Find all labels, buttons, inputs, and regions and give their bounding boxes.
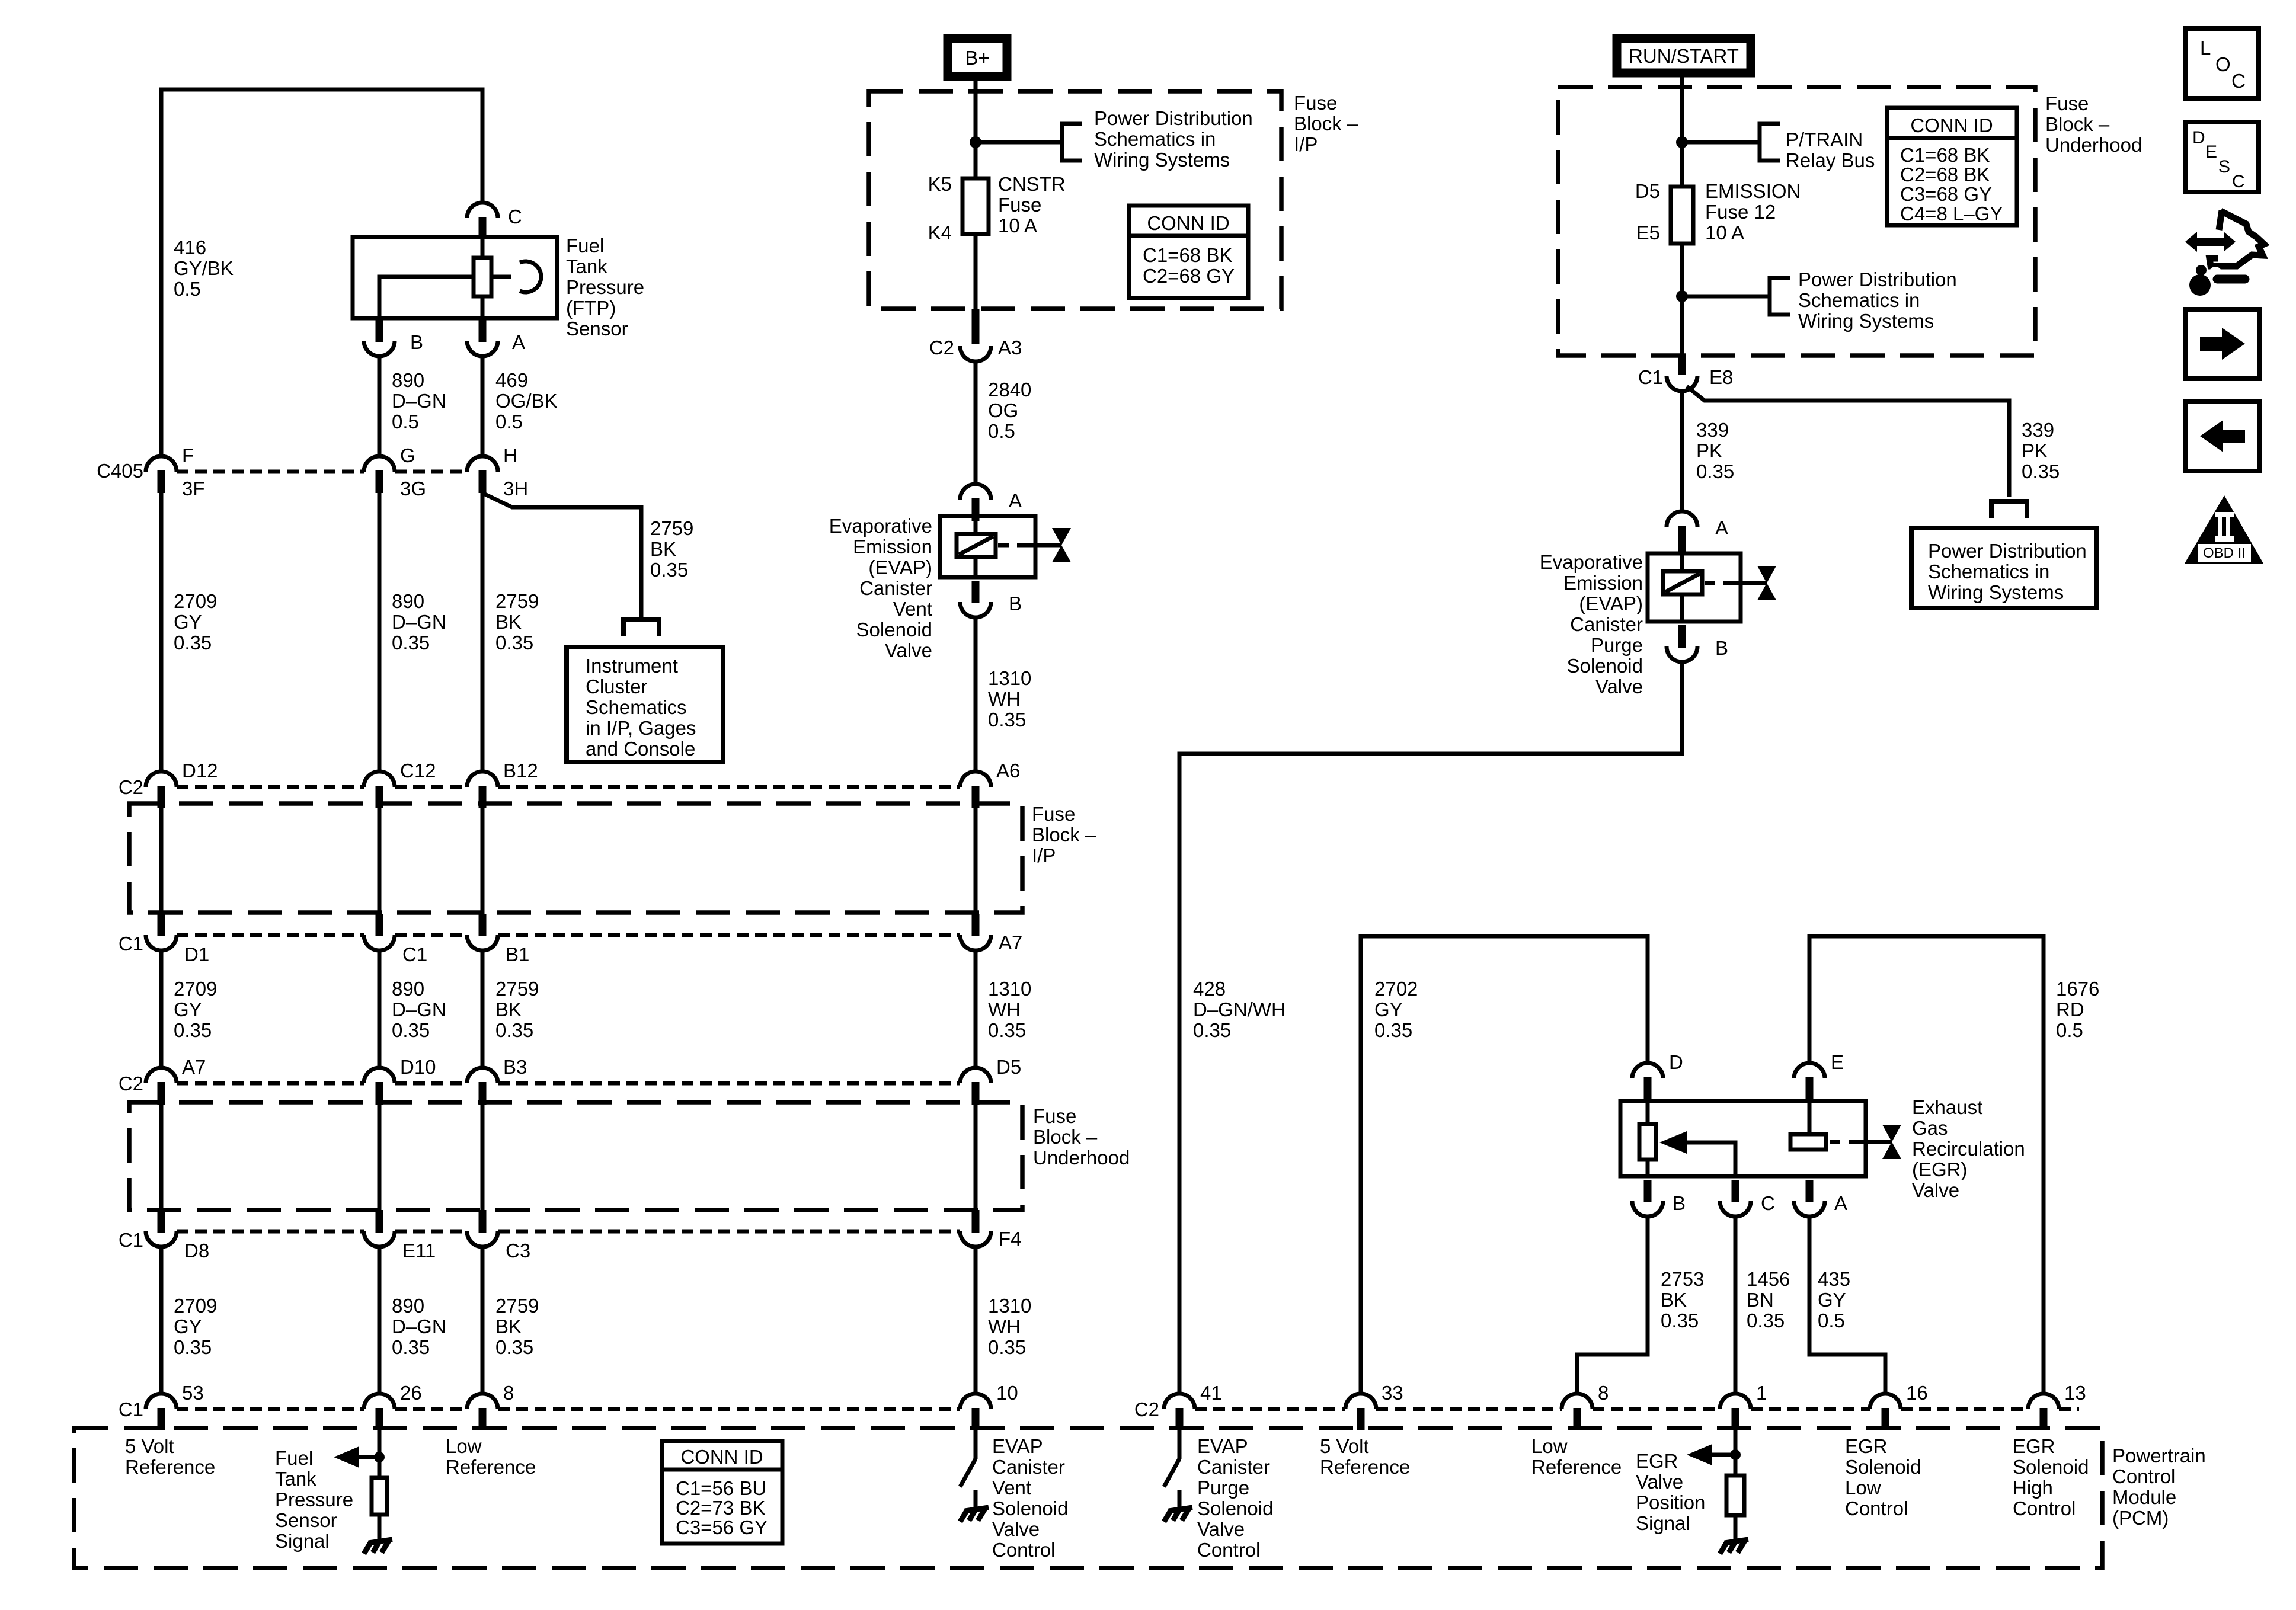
svg-text:E5: E5 bbox=[1636, 222, 1660, 244]
svg-text:B1: B1 bbox=[506, 943, 529, 965]
svg-text:Valve: Valve bbox=[1636, 1471, 1683, 1493]
connector C (FTP sensor) bbox=[467, 203, 498, 239]
svg-text:P/TRAIN: P/TRAIN bbox=[1786, 129, 1863, 151]
svg-text:C1: C1 bbox=[119, 1398, 143, 1420]
svg-text:5 Volt: 5 Volt bbox=[1320, 1435, 1369, 1457]
connector C1 bbox=[364, 914, 395, 950]
svg-text:0.35: 0.35 bbox=[495, 1336, 533, 1358]
wire B+ down into fuse block bbox=[974, 81, 978, 178]
svg-text:G: G bbox=[400, 444, 415, 466]
svg-text:0.35: 0.35 bbox=[1193, 1019, 1231, 1041]
svg-text:C1: C1 bbox=[119, 1229, 143, 1251]
svg-text:Valve: Valve bbox=[1912, 1179, 1959, 1201]
EGR wiper arrow bbox=[1686, 1142, 1735, 1176]
wire pin 13 loop to EGR E bbox=[1809, 936, 2044, 1394]
svg-text:2840: 2840 bbox=[988, 379, 1031, 401]
wires C1 row to C2 row bbox=[159, 950, 164, 1068]
connector F4 bbox=[960, 1210, 991, 1247]
connector D (EGR) bbox=[1632, 1063, 1663, 1100]
svg-text:Cluster: Cluster bbox=[586, 676, 648, 697]
svg-text:C: C bbox=[2232, 172, 2245, 191]
off-page bracket P/TRAIN relay bus bbox=[1760, 124, 1780, 161]
svg-text:B: B bbox=[410, 331, 423, 353]
svg-text:GY: GY bbox=[174, 998, 202, 1020]
svg-text:Valve: Valve bbox=[885, 639, 932, 661]
svg-text:GY: GY bbox=[1374, 998, 1403, 1020]
svg-text:Valve: Valve bbox=[1197, 1518, 1245, 1540]
svg-text:GY: GY bbox=[174, 611, 202, 633]
svg-text:8: 8 bbox=[503, 1382, 514, 1404]
pin 10 internal: EVAP vent control switch bbox=[974, 1428, 978, 1459]
svg-text:Vent: Vent bbox=[893, 598, 932, 620]
svg-text:D1: D1 bbox=[184, 943, 209, 965]
svg-text:High: High bbox=[2013, 1477, 2053, 1499]
svg-text:Block –: Block – bbox=[1032, 824, 1096, 846]
svg-text:Recirculation: Recirculation bbox=[1912, 1138, 2025, 1160]
svg-text:Module: Module bbox=[2112, 1486, 2176, 1508]
svg-text:EVAP: EVAP bbox=[992, 1435, 1043, 1457]
svg-text:I/P: I/P bbox=[1032, 844, 1056, 866]
svg-text:Canister: Canister bbox=[992, 1456, 1065, 1478]
purge valve linkage dashes bbox=[1705, 581, 1715, 585]
svg-text:Powertrain: Powertrain bbox=[2112, 1445, 2206, 1467]
svg-text:Control: Control bbox=[1197, 1539, 1260, 1561]
fuse block I/P dashed box (middle) bbox=[129, 804, 1022, 913]
svg-text:Instrument: Instrument bbox=[586, 655, 678, 677]
svg-text:Canister: Canister bbox=[859, 577, 932, 599]
svg-text:Fuse: Fuse bbox=[1033, 1105, 1076, 1127]
svg-text:890: 890 bbox=[392, 1295, 424, 1317]
svg-text:C1=68 BK: C1=68 BK bbox=[1900, 144, 1990, 166]
connector B (vent valve) bbox=[960, 581, 991, 617]
LOC icon box bbox=[2185, 28, 2259, 98]
svg-text:0.35: 0.35 bbox=[1374, 1019, 1412, 1041]
fuse block underhood dashed box (middle) bbox=[129, 1102, 1022, 1210]
svg-text:2702: 2702 bbox=[1374, 978, 1418, 1000]
connector A (FTP) bbox=[467, 319, 498, 356]
connector E11 bbox=[364, 1210, 395, 1247]
svg-text:2753: 2753 bbox=[1661, 1268, 1704, 1290]
svg-text:D–GN/WH: D–GN/WH bbox=[1193, 998, 1285, 1020]
svg-text:C3: C3 bbox=[506, 1240, 530, 1262]
svg-text:D–GN: D–GN bbox=[392, 998, 446, 1020]
svg-text:469: 469 bbox=[495, 369, 528, 391]
svg-text:Position: Position bbox=[1636, 1491, 1705, 1513]
svg-text:C2: C2 bbox=[1134, 1398, 1159, 1420]
svg-text:53: 53 bbox=[182, 1382, 204, 1404]
svg-text:(EVAP): (EVAP) bbox=[868, 556, 932, 578]
junction dot pin 1 bbox=[1730, 1449, 1741, 1460]
wire branch H to instrument cluster bbox=[482, 493, 641, 617]
svg-text:Solenoid: Solenoid bbox=[1197, 1497, 1273, 1519]
svg-text:2759: 2759 bbox=[495, 1295, 539, 1317]
svg-text:in I/P, Gages: in I/P, Gages bbox=[586, 717, 696, 739]
svg-text:C2: C2 bbox=[119, 1073, 143, 1094]
svg-text:Pressure: Pressure bbox=[566, 276, 644, 298]
svg-text:890: 890 bbox=[392, 590, 424, 612]
svg-text:Fuse: Fuse bbox=[1294, 92, 1337, 114]
resistor inside FTP sensor bbox=[474, 258, 491, 296]
svg-text:0.35: 0.35 bbox=[495, 632, 533, 654]
EGR solenoid coil bbox=[1790, 1134, 1826, 1150]
svg-text:K4: K4 bbox=[928, 222, 952, 244]
svg-text:Underhood: Underhood bbox=[2045, 134, 2142, 156]
svg-text:Relay Bus: Relay Bus bbox=[1786, 149, 1875, 171]
svg-text:and Console: and Console bbox=[586, 738, 695, 760]
svg-text:CONN ID: CONN ID bbox=[680, 1446, 763, 1468]
wire A3 to vent valve bbox=[974, 361, 978, 484]
svg-text:BN: BN bbox=[1747, 1289, 1774, 1311]
svg-text:3G: 3G bbox=[400, 478, 426, 500]
svg-text:33: 33 bbox=[1382, 1382, 1403, 1404]
svg-text:Block –: Block – bbox=[2045, 113, 2110, 135]
wire FTP A down to C405 bbox=[481, 356, 485, 456]
pin 1 internal: EGR position sense bbox=[1734, 1428, 1738, 1475]
svg-text:A: A bbox=[1009, 489, 1022, 511]
svg-text:C4=8 L–GY: C4=8 L–GY bbox=[1900, 203, 2003, 225]
svg-text:BK: BK bbox=[650, 538, 676, 560]
wire fuse to box edge bbox=[974, 234, 978, 309]
connector A7 bbox=[960, 914, 991, 950]
svg-text:Pressure: Pressure bbox=[275, 1489, 353, 1510]
svg-text:WH: WH bbox=[988, 1315, 1021, 1337]
svg-text:339: 339 bbox=[2022, 419, 2054, 441]
svg-text:Valve: Valve bbox=[1595, 676, 1643, 697]
RUN/START power symbol box bbox=[1617, 39, 1751, 73]
svg-text:2709: 2709 bbox=[174, 590, 217, 612]
pin 41 bbox=[1164, 1394, 1195, 1430]
svg-text:Schematics in: Schematics in bbox=[1798, 289, 1920, 311]
DESC icon box bbox=[2185, 122, 2259, 192]
svg-text:D–GN: D–GN bbox=[392, 611, 446, 633]
svg-text:Wiring Systems: Wiring Systems bbox=[1798, 310, 1934, 332]
svg-text:F: F bbox=[182, 444, 194, 466]
svg-text:D10: D10 bbox=[400, 1056, 436, 1078]
EGR valve box bbox=[1620, 1101, 1866, 1176]
FTP sensor crescent contact bbox=[520, 261, 541, 292]
svg-text:C3=68 GY: C3=68 GY bbox=[1900, 183, 1992, 205]
wire col1 C405 to C2 row bbox=[159, 491, 164, 772]
svg-text:Power Distribution: Power Distribution bbox=[1928, 540, 2087, 562]
svg-text:Low: Low bbox=[1845, 1477, 1881, 1499]
svg-text:D8: D8 bbox=[184, 1240, 209, 1262]
svg-text:0.35: 0.35 bbox=[392, 1336, 430, 1358]
svg-text:0.35: 0.35 bbox=[392, 1019, 430, 1041]
pin 8 bbox=[467, 1394, 498, 1430]
svg-text:Schematics in: Schematics in bbox=[1928, 561, 2049, 582]
junction dot B+ tap bbox=[970, 136, 981, 148]
pin 10 bbox=[960, 1394, 991, 1430]
svg-text:Underhood: Underhood bbox=[1033, 1147, 1130, 1169]
wrench bbox=[2189, 265, 2245, 296]
svg-text:13: 13 bbox=[2064, 1382, 2086, 1404]
wire FTP loop top bbox=[161, 89, 482, 456]
svg-text:CONN ID: CONN ID bbox=[1147, 212, 1229, 234]
svg-text:E: E bbox=[2205, 142, 2217, 162]
junction dot P/TRAIN tap bbox=[1676, 136, 1688, 148]
svg-text:EGR: EGR bbox=[1636, 1450, 1678, 1472]
svg-text:A3: A3 bbox=[998, 337, 1022, 359]
svg-text:C405: C405 bbox=[97, 460, 143, 482]
svg-text:CNSTR: CNSTR bbox=[998, 173, 1066, 195]
svg-text:0.5: 0.5 bbox=[988, 420, 1015, 442]
connector D1 bbox=[146, 914, 177, 950]
svg-text:Canister: Canister bbox=[1197, 1456, 1270, 1478]
svg-text:Fuse 12: Fuse 12 bbox=[1705, 201, 1776, 223]
svg-text:Solenoid: Solenoid bbox=[992, 1497, 1068, 1519]
svg-text:Valve: Valve bbox=[992, 1518, 1040, 1540]
svg-text:Tank: Tank bbox=[275, 1468, 316, 1490]
svg-text:Fuel: Fuel bbox=[275, 1447, 313, 1469]
B+ power symbol box bbox=[948, 39, 1007, 76]
power distribution schematics box bbox=[1911, 528, 2097, 608]
svg-text:D: D bbox=[2192, 128, 2205, 148]
svg-text:890: 890 bbox=[392, 978, 424, 1000]
svg-text:WH: WH bbox=[988, 688, 1021, 710]
svg-text:Reference: Reference bbox=[1320, 1456, 1410, 1478]
purge valve butterfly symbol bbox=[1757, 566, 1776, 600]
svg-text:Tank: Tank bbox=[566, 255, 607, 277]
svg-text:Control: Control bbox=[2013, 1497, 2076, 1519]
svg-text:B: B bbox=[1009, 593, 1022, 614]
svg-text:A: A bbox=[1715, 517, 1728, 539]
pin 13 bbox=[2028, 1394, 2059, 1430]
svg-text:OG/BK: OG/BK bbox=[495, 390, 558, 412]
connector E (EGR) bbox=[1794, 1063, 1825, 1100]
svg-text:10 A: 10 A bbox=[1705, 222, 1744, 244]
hand with double arrow and wrench icon bbox=[2209, 210, 2264, 266]
svg-text:(EVAP): (EVAP) bbox=[1579, 593, 1643, 614]
resistor pin 26 bbox=[372, 1478, 387, 1515]
svg-text:Emission: Emission bbox=[853, 536, 932, 558]
connector F bbox=[146, 456, 177, 493]
svg-text:D: D bbox=[1669, 1051, 1683, 1073]
wire FTP crescent link bbox=[491, 275, 511, 279]
connector D12 bbox=[146, 772, 177, 808]
svg-text:Evaporative: Evaporative bbox=[829, 515, 932, 537]
svg-text:0.35: 0.35 bbox=[174, 632, 212, 654]
svg-text:GY: GY bbox=[174, 1315, 202, 1337]
svg-text:C: C bbox=[508, 206, 522, 228]
resistor pin 1 bbox=[1726, 1475, 1744, 1515]
wire tap to PD bracket bbox=[1682, 295, 1768, 299]
svg-text:Block –: Block – bbox=[1294, 113, 1358, 135]
svg-text:2759: 2759 bbox=[650, 517, 693, 539]
wire col2 C405 to C2 row bbox=[378, 491, 382, 772]
svg-text:B: B bbox=[1715, 637, 1728, 659]
svg-text:(EGR): (EGR) bbox=[1912, 1158, 1968, 1180]
svg-text:Fuse: Fuse bbox=[1032, 803, 1075, 825]
svg-text:Schematics in: Schematics in bbox=[1094, 128, 1216, 150]
svg-text:0.35: 0.35 bbox=[650, 559, 688, 581]
instrument cluster schematics box bbox=[567, 647, 723, 762]
svg-text:Control: Control bbox=[1845, 1497, 1908, 1519]
left arrow icon box bbox=[2185, 402, 2260, 471]
wire vent B to A6 bbox=[974, 617, 978, 772]
pin 26 bbox=[364, 1394, 395, 1430]
svg-text:Reference: Reference bbox=[125, 1456, 215, 1478]
svg-text:Purge: Purge bbox=[1197, 1477, 1249, 1499]
svg-text:0.5: 0.5 bbox=[174, 278, 201, 300]
wire col3 C405 to C2 row bbox=[481, 491, 485, 772]
svg-text:428: 428 bbox=[1193, 978, 1226, 1000]
connector C1/E8 bbox=[1678, 356, 1686, 375]
purge valve coil bbox=[1663, 571, 1702, 594]
svg-text:Canister: Canister bbox=[1570, 613, 1643, 635]
connector A7 (C2) bbox=[146, 1068, 177, 1105]
svg-text:2709: 2709 bbox=[174, 978, 217, 1000]
svg-text:Wiring Systems: Wiring Systems bbox=[1094, 149, 1230, 171]
svg-text:0.35: 0.35 bbox=[1747, 1310, 1785, 1331]
wire fuse to box edge bbox=[1680, 244, 1684, 356]
svg-text:0.35: 0.35 bbox=[1696, 460, 1734, 482]
svg-text:CONN ID: CONN ID bbox=[1910, 114, 1993, 136]
wire E8 branch right bbox=[1687, 386, 2009, 497]
svg-text:Low: Low bbox=[1531, 1435, 1568, 1457]
wire FTP B down to C405 bbox=[378, 356, 382, 456]
svg-text:B: B bbox=[1673, 1192, 1686, 1214]
svg-text:Emission: Emission bbox=[1563, 572, 1643, 594]
svg-text:0.35: 0.35 bbox=[1661, 1310, 1699, 1331]
svg-text:GY: GY bbox=[1818, 1289, 1846, 1311]
svg-text:RD: RD bbox=[2056, 998, 2084, 1020]
vent valve coil bbox=[957, 534, 996, 557]
svg-text:Vent: Vent bbox=[992, 1477, 1031, 1499]
svg-text:EMISSION: EMISSION bbox=[1705, 180, 1801, 202]
svg-text:E: E bbox=[1831, 1051, 1844, 1073]
svg-text:1310: 1310 bbox=[988, 1295, 1031, 1317]
EVAP canister vent solenoid valve box bbox=[940, 516, 1035, 577]
svg-text:2759: 2759 bbox=[495, 978, 539, 1000]
svg-text:0.35: 0.35 bbox=[988, 1019, 1026, 1041]
svg-text:C1: C1 bbox=[119, 933, 143, 955]
connector C (EGR) bbox=[1720, 1180, 1751, 1217]
svg-text:Purge: Purge bbox=[1591, 634, 1643, 656]
arrow FTP sensor signal bbox=[356, 1455, 379, 1459]
svg-text:D–GN: D–GN bbox=[392, 1315, 446, 1337]
ground (pin 10 circuit) bbox=[960, 1507, 989, 1522]
svg-text:OG: OG bbox=[988, 399, 1018, 421]
off-page bracket power distribution (I/P) bbox=[1062, 124, 1082, 161]
EGR potentiometer bbox=[1639, 1124, 1656, 1160]
svg-text:Solenoid: Solenoid bbox=[1845, 1456, 1921, 1478]
svg-text:I/P: I/P bbox=[1294, 133, 1318, 155]
wires through underhood fuse block (middle) bbox=[159, 1102, 164, 1214]
svg-text:Gas: Gas bbox=[1912, 1117, 1948, 1139]
svg-text:PK: PK bbox=[2022, 440, 2048, 462]
svg-text:BK: BK bbox=[495, 998, 522, 1020]
svg-text:A6: A6 bbox=[996, 760, 1020, 782]
svg-text:1456: 1456 bbox=[1747, 1268, 1790, 1290]
svg-text:C: C bbox=[2231, 70, 2246, 92]
svg-text:E11: E11 bbox=[402, 1240, 436, 1262]
svg-text:D–GN: D–GN bbox=[392, 390, 446, 412]
svg-text:Sensor: Sensor bbox=[566, 318, 628, 340]
ground (pin 41 circuit) bbox=[1164, 1507, 1192, 1522]
ground (pin 1 circuit) bbox=[1720, 1539, 1748, 1554]
wire tap to P/TRAIN bracket bbox=[1682, 140, 1758, 145]
svg-text:Exhaust: Exhaust bbox=[1912, 1096, 1982, 1118]
svg-text:2759: 2759 bbox=[495, 590, 539, 612]
svg-text:B12: B12 bbox=[503, 760, 538, 782]
svg-text:C2=68 BK: C2=68 BK bbox=[1900, 164, 1990, 185]
vent valve linkage dashes bbox=[998, 543, 1009, 548]
fuse EMISSION D5/E5 bbox=[1671, 187, 1693, 244]
svg-text:41: 41 bbox=[1200, 1382, 1222, 1404]
junction dot pin 26 bbox=[374, 1452, 385, 1462]
pin 41 internal: EVAP purge control switch bbox=[1178, 1428, 1182, 1459]
svg-text:0.35: 0.35 bbox=[495, 1019, 533, 1041]
wire EGR A to pin 16 bbox=[1809, 1217, 1885, 1394]
svg-text:3H: 3H bbox=[503, 478, 528, 500]
svg-text:26: 26 bbox=[400, 1382, 422, 1404]
svg-text:Power Distribution: Power Distribution bbox=[1798, 268, 1957, 290]
svg-text:BK: BK bbox=[1661, 1289, 1687, 1311]
fuse block underhood dashed box (top right) bbox=[1558, 87, 2035, 356]
connector C2/A3 bbox=[972, 309, 980, 344]
svg-text:0.35: 0.35 bbox=[988, 709, 1026, 731]
svg-text:Control: Control bbox=[2112, 1465, 2175, 1487]
svg-text:Control: Control bbox=[992, 1539, 1055, 1561]
connector B (EGR) bbox=[1632, 1180, 1663, 1217]
svg-text:Signal: Signal bbox=[1636, 1512, 1690, 1534]
svg-text:C1=56 BU: C1=56 BU bbox=[676, 1477, 766, 1499]
wire RUN/START down bbox=[1680, 77, 1684, 187]
svg-text:Fuse: Fuse bbox=[2045, 92, 2089, 114]
svg-text:D12: D12 bbox=[182, 760, 218, 782]
connector B12 bbox=[467, 772, 498, 808]
connector D5 bbox=[960, 1068, 991, 1105]
svg-text:0.35: 0.35 bbox=[2022, 460, 2060, 482]
svg-text:E8: E8 bbox=[1709, 366, 1733, 388]
svg-text:WH: WH bbox=[988, 998, 1021, 1020]
svg-text:B+: B+ bbox=[965, 47, 989, 69]
pin 16 bbox=[1870, 1394, 1901, 1430]
svg-text:PK: PK bbox=[1696, 440, 1722, 462]
svg-text:Evaporative: Evaporative bbox=[1540, 551, 1643, 573]
junction dot PD tap bbox=[1676, 290, 1688, 302]
svg-text:EGR: EGR bbox=[1845, 1435, 1888, 1457]
pin 8 (C2) bbox=[1562, 1394, 1593, 1430]
svg-text:A7: A7 bbox=[999, 932, 1022, 953]
svg-text:890: 890 bbox=[392, 369, 424, 391]
svg-text:BK: BK bbox=[495, 611, 522, 633]
pin 1 bbox=[1720, 1394, 1751, 1430]
wire tap to power distribution bracket bbox=[976, 140, 1060, 145]
fuse CNSTR K5/K4 bbox=[962, 178, 989, 234]
svg-text:D5: D5 bbox=[1635, 180, 1660, 202]
svg-text:BK: BK bbox=[495, 1315, 522, 1337]
svg-text:0.5: 0.5 bbox=[2056, 1019, 2083, 1041]
svg-text:GY/BK: GY/BK bbox=[174, 257, 234, 279]
EGR butterfly symbol bbox=[1882, 1125, 1901, 1159]
svg-text:D5: D5 bbox=[996, 1056, 1021, 1078]
svg-text:Solenoid: Solenoid bbox=[856, 619, 932, 641]
arrow EGR valve position signal bbox=[1712, 1453, 1735, 1457]
svg-text:8: 8 bbox=[1598, 1382, 1609, 1404]
double headed arrow bbox=[2185, 232, 2236, 252]
svg-text:C2=68 GY: C2=68 GY bbox=[1143, 265, 1235, 287]
svg-text:0.5: 0.5 bbox=[1818, 1310, 1845, 1331]
CONN ID table (underhood) bbox=[1887, 108, 2017, 225]
svg-text:OBD II: OBD II bbox=[2203, 545, 2246, 561]
pin 53 bbox=[146, 1394, 177, 1430]
svg-text:0.35: 0.35 bbox=[392, 632, 430, 654]
wire pin 33 loop to EGR D bbox=[1361, 936, 1648, 1394]
svg-text:A7: A7 bbox=[182, 1056, 206, 1078]
fuse block I/P dashed box (top) bbox=[869, 91, 1281, 309]
svg-text:0.5: 0.5 bbox=[392, 411, 419, 433]
